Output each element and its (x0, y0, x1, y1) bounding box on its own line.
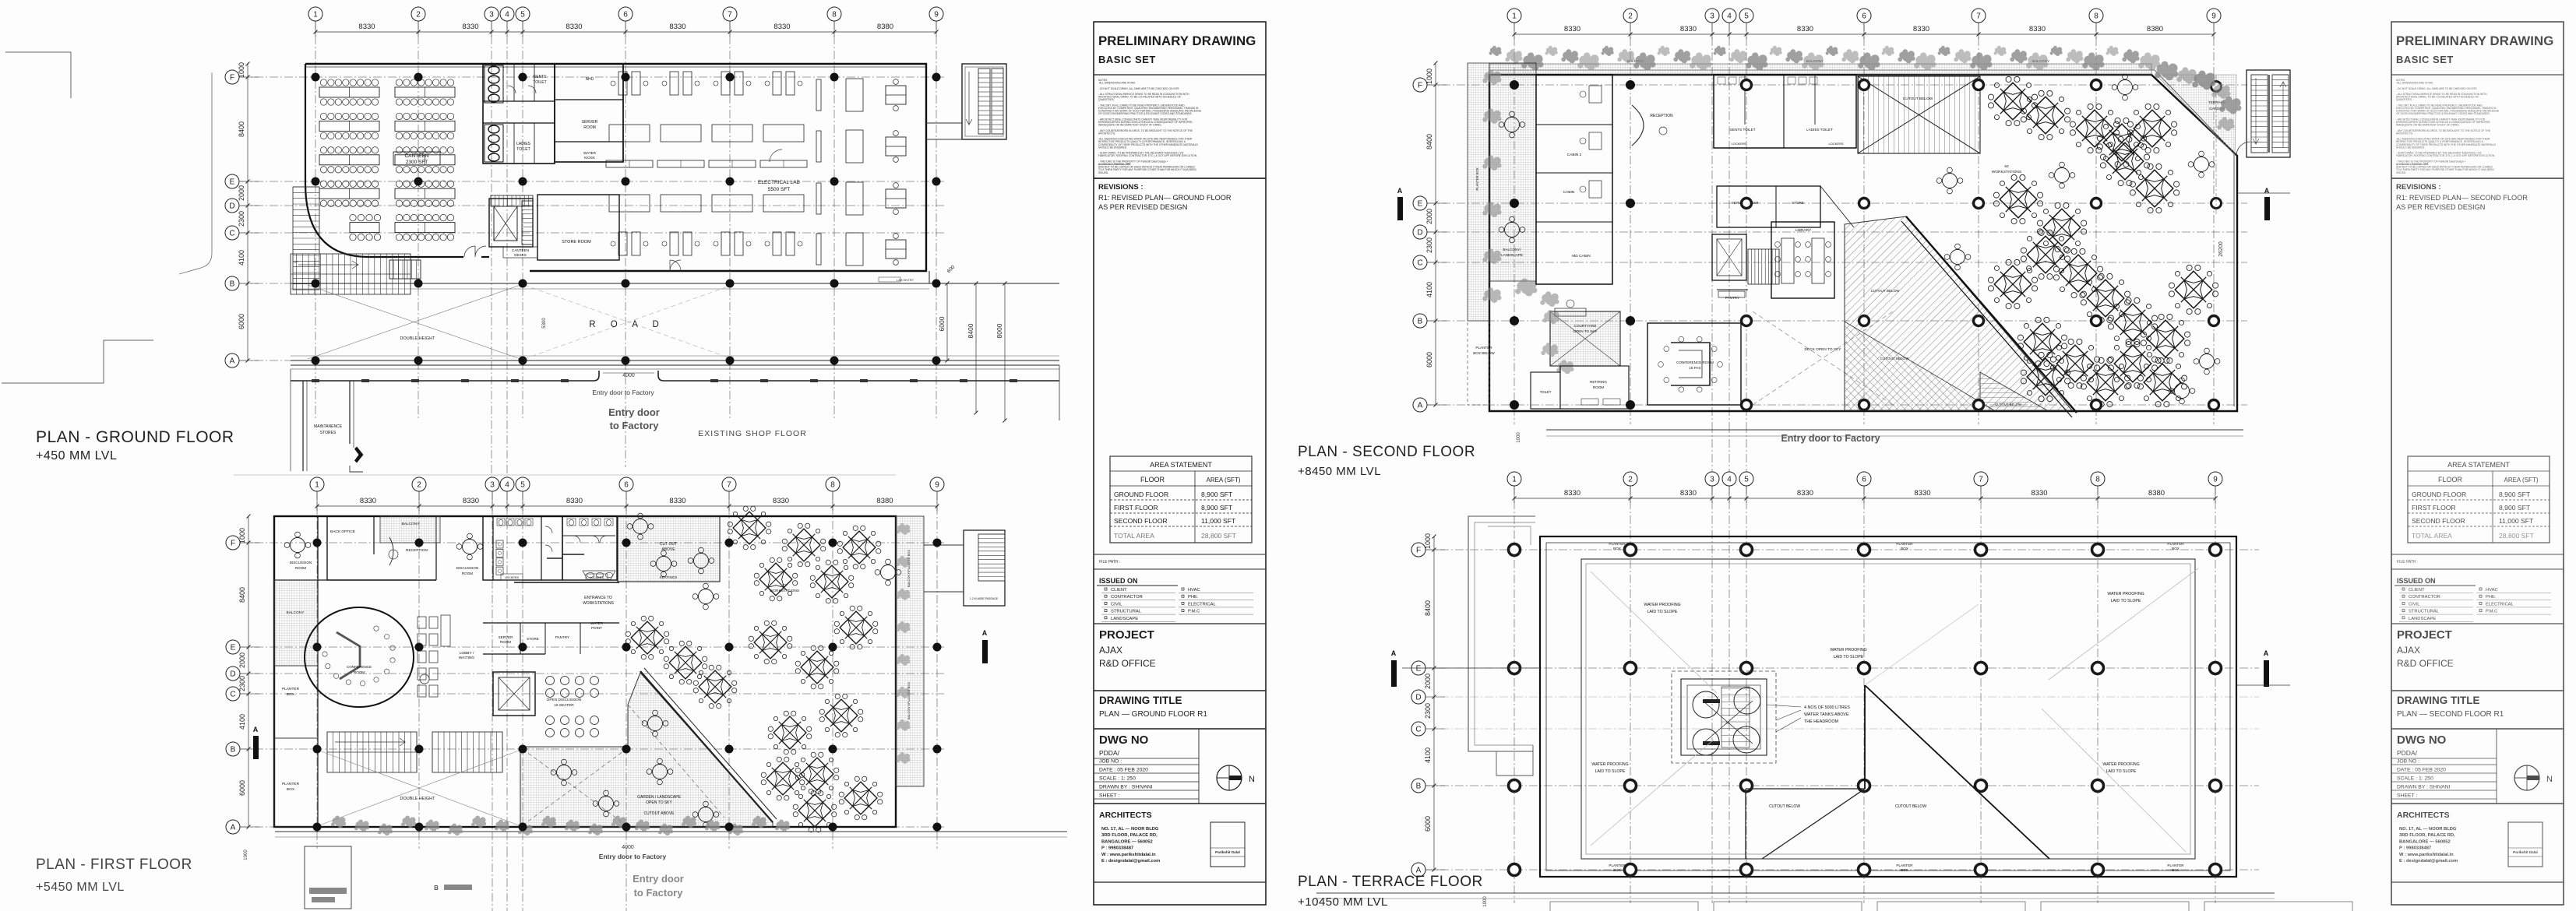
svg-text:SERVER: SERVER (582, 120, 598, 125)
svg-text:DWG NO: DWG NO (1099, 733, 1149, 747)
svg-text:28,800 SFT: 28,800 SFT (2499, 532, 2535, 540)
gents toilet block (483, 64, 555, 164)
title block frame (2391, 22, 2564, 905)
svg-text:F: F (1418, 82, 1422, 90)
terrace column donuts (1509, 544, 1521, 556)
svg-text:NO. 17, AL — NOOR BLDG: NO. 17, AL — NOOR BLDG (1101, 827, 1159, 832)
left dimension line (247, 64, 248, 361)
area statement table (2408, 456, 2550, 543)
svg-text:FILE PATH :: FILE PATH : (2397, 560, 2418, 565)
svg-text:BOX: BOX (287, 692, 295, 697)
svg-text:E : designdalal@gmail.com: E : designdalal@gmail.com (1101, 859, 1160, 864)
svg-text:3: 3 (489, 11, 494, 19)
svg-text:LOCKERS: LOCKERS (505, 576, 520, 579)
svg-text:1000: 1000 (238, 528, 246, 543)
left dimension line (1435, 63, 1436, 405)
svg-text:A: A (253, 726, 259, 733)
garden diag dashes (523, 749, 626, 825)
external stair top right (962, 64, 1006, 139)
svg-text:DECK OPEN TO SKY: DECK OPEN TO SKY (1804, 347, 1841, 352)
svg-text:5: 5 (520, 11, 525, 19)
svg-text:BOX: BOX (1901, 547, 1908, 550)
terrace parapet walls (1540, 536, 2236, 877)
svg-text:2000: 2000 (1424, 674, 1432, 689)
svg-text:W : www.parikshitdalal.in: W : www.parikshitdalal.in (1101, 853, 1156, 857)
svg-text:4: 4 (1727, 476, 1732, 484)
svg-text:8330: 8330 (462, 23, 478, 31)
hatched cutout triangles (1845, 216, 2072, 410)
workstation clusters first floor (728, 506, 771, 550)
file path bar (2391, 554, 2564, 555)
column bubbles (top) (1507, 472, 1521, 486)
svg-text:CUTOUT BELOW: CUTOUT BELOW (1903, 97, 1933, 101)
svg-text:4000: 4000 (622, 845, 634, 850)
toilet fixtures top row (497, 519, 505, 526)
svg-text:D: D (1417, 229, 1422, 237)
svg-text:8330: 8330 (463, 497, 479, 505)
lab entry door bottom (929, 271, 930, 283)
svg-text:AREA (SFT): AREA (SFT) (1206, 477, 1240, 484)
svg-text:WATER: WATER (590, 621, 604, 625)
svg-text:LANDSCAPE: LANDSCAPE (2409, 617, 2436, 621)
svg-text:DISCUSSION: DISCUSSION (456, 566, 479, 570)
svg-text:WATER PROOFING: WATER PROOFING (1830, 648, 1866, 652)
ground floor stair bottom-left (290, 254, 291, 294)
canteen desks label (503, 247, 537, 258)
svg-text:ISSUED ON: ISSUED ON (1099, 577, 1138, 585)
svg-text:PLAN — SECOND FLOOR R1: PLAN — SECOND FLOOR R1 (2397, 710, 2504, 719)
svg-text:WATER PROOFING: WATER PROOFING (2107, 592, 2144, 596)
svg-text:8380: 8380 (876, 497, 893, 505)
double height first floor (319, 751, 519, 825)
svg-text:8380: 8380 (877, 23, 893, 31)
svg-text:CONFERENCE ROOM: CONFERENCE ROOM (1676, 361, 1714, 364)
svg-text:FIRST FLOOR: FIRST FLOOR (2412, 504, 2456, 512)
svg-text:B: B (231, 746, 236, 754)
svg-text:CIVIL: CIVIL (2409, 602, 2420, 607)
svg-text:6000: 6000 (238, 314, 245, 329)
svg-text:R1: REVISED PLAN— SECOND FLOOR: R1: REVISED PLAN— SECOND FLOOR (2396, 194, 2528, 202)
svg-text:N: N (1249, 775, 1255, 784)
svg-text:PROJECT: PROJECT (2397, 628, 2452, 642)
svg-text:REVISIONS :: REVISIONS : (1098, 183, 1144, 192)
svg-text:SERVER: SERVER (499, 635, 513, 639)
svg-text:STRUCTURAL: STRUCTURAL (2409, 610, 2440, 614)
svg-text:LAID TO SLOPE: LAID TO SLOPE (1834, 655, 1864, 660)
svg-text:R&D OFFICE: R&D OFFICE (2397, 658, 2454, 669)
svg-text:PLANTER: PLANTER (282, 782, 300, 786)
svg-text:19 PAX: 19 PAX (1689, 366, 1700, 370)
svg-text:PHE.: PHE. (2486, 595, 2497, 600)
area statement table (1110, 456, 1252, 543)
svg-text:FILE PATH :: FILE PATH : (1099, 560, 1120, 565)
svg-text:PANTRY: PANTRY (1725, 296, 1739, 300)
svg-text:+8450 MM LVL: +8450 MM LVL (1298, 465, 1381, 478)
svg-text:LANDSCAPE: LANDSCAPE (1501, 253, 1523, 257)
svg-text:BOX: BOX (1901, 868, 1908, 872)
discussion room 2 table (456, 533, 483, 560)
svg-text:2300: 2300 (1425, 237, 1433, 253)
svg-text:PRELIMINARY DRAWING: PRELIMINARY DRAWING (1098, 33, 1256, 48)
plants at chamfer (2155, 62, 2178, 81)
svg-text:BOX BELOW: BOX BELOW (1473, 351, 1495, 355)
svg-text:PLANTER: PLANTER (2167, 864, 2184, 867)
svg-text:8330: 8330 (1797, 25, 1813, 33)
svg-text:9: 9 (2211, 12, 2216, 21)
svg-text:ELECTRICAL: ELECTRICAL (1188, 602, 1217, 607)
svg-text:P.M.C: P.M.C (2486, 610, 2497, 614)
library (1771, 222, 1834, 298)
north arrow (1217, 765, 1242, 790)
svg-text:7: 7 (1976, 12, 1981, 21)
svg-text:CONFERENCE: CONFERENCE (347, 665, 372, 669)
toilet stalls and doors (545, 526, 552, 533)
svg-text:8400: 8400 (1425, 134, 1433, 149)
svg-text:6000: 6000 (1425, 352, 1433, 368)
svg-text:HVAC: HVAC (2486, 588, 2498, 593)
electrical lab benches row1/row5 (618, 72, 627, 95)
svg-text:PHE.: PHE. (1188, 595, 1199, 600)
canteen label (393, 152, 440, 165)
svg-text:8,900 SFT: 8,900 SFT (2499, 504, 2531, 512)
svg-text:NO. 17, AL — NOOR BLDG: NO. 17, AL — NOOR BLDG (2399, 827, 2457, 832)
svg-text:AREA STATEMENT: AREA STATEMENT (2447, 461, 2510, 469)
svg-text:1000: 1000 (244, 849, 248, 860)
svg-text:ROOM: ROOM (462, 572, 473, 575)
svg-text:PLANTER: PLANTER (2167, 542, 2184, 546)
svg-text:8330: 8330 (1680, 25, 1697, 33)
svg-text:WORKSTATIONS: WORKSTATIONS (583, 601, 614, 606)
svg-text:DRAWING TITLE: DRAWING TITLE (1099, 695, 1182, 706)
svg-text:THE HEADROOM: THE HEADROOM (1804, 719, 1839, 724)
svg-text:A: A (1391, 649, 1397, 657)
svg-text:BASIC SET: BASIC SET (1098, 54, 1156, 65)
svg-text:PLAN - TERRACE FLOOR: PLAN - TERRACE FLOOR (1298, 874, 1483, 890)
svg-text:LOCKERS: LOCKERS (1731, 142, 1746, 146)
svg-text:CUTOUT BELOW: CUTOUT BELOW (1871, 289, 1901, 293)
svg-text:5: 5 (1744, 12, 1749, 21)
svg-text:QUANTITIES.: QUANTITIES. (2396, 98, 2412, 101)
svg-text:LAID TO SLOPE: LAID TO SLOPE (2111, 599, 2141, 603)
svg-text:PLAN - SECOND FLOOR: PLAN - SECOND FLOOR (1298, 444, 1475, 460)
svg-text:PLANTER: PLANTER (1896, 864, 1913, 867)
svg-text:RECEPTION: RECEPTION (406, 548, 428, 553)
svg-text:8400: 8400 (238, 121, 245, 137)
svg-text:DISCUSSION: DISCUSSION (290, 561, 312, 565)
svg-text:TO A THIRD PARTY FOR ANY PURPO: TO A THIRD PARTY FOR ANY PURPOSE OTHER T… (2396, 168, 2494, 171)
svg-text:E: E (1418, 200, 1423, 209)
svg-text:CABIN 2: CABIN 2 (1567, 153, 1582, 157)
svg-text:CUTOUT ABOVE: CUTOUT ABOVE (644, 811, 675, 816)
second floor outer walls (1489, 75, 2237, 411)
svg-text:+10450 MM LVL: +10450 MM LVL (1298, 895, 1388, 909)
conference room ellipse (305, 607, 414, 707)
svg-text:8: 8 (832, 11, 837, 19)
svg-text:ISSUED.: ISSUED. (1098, 171, 1108, 174)
svg-text:B: B (1418, 318, 1423, 326)
door arcs (670, 260, 681, 271)
svg-text:8330: 8330 (774, 23, 790, 31)
svg-text:COURTYARD: COURTYARD (1574, 324, 1597, 328)
svg-text:AHU: AHU (586, 77, 594, 82)
svg-text:KIOSK: KIOSK (584, 156, 596, 160)
sink ovals (583, 571, 615, 579)
svg-text:STRUCTURAL: STRUCTURAL (1111, 610, 1142, 614)
svg-text:WATER TANKS ABOVE: WATER TANKS ABOVE (1804, 712, 1849, 717)
svg-text:BALCONY/PLANTER BOX: BALCONY/PLANTER BOX (907, 550, 911, 588)
svg-text:2000: 2000 (238, 652, 246, 668)
svg-text:7: 7 (728, 11, 732, 19)
svg-text:- DO NOT SCALE DRWG. ALL DIMS: - DO NOT SCALE DRWG. ALL DIMS ARE TO BE … (1098, 87, 1179, 90)
svg-text:6: 6 (1862, 12, 1866, 21)
svg-text:F: F (1416, 547, 1421, 555)
svg-text:2: 2 (416, 11, 421, 19)
top dimension line (1514, 33, 2214, 35)
right title block (2391, 22, 2564, 905)
svg-text:REVISIONS :: REVISIONS : (2396, 183, 2441, 192)
svg-text:3: 3 (1710, 476, 1714, 484)
svg-text:PLAN - GROUND FLOOR: PLAN - GROUND FLOOR (36, 428, 234, 446)
svg-text:ARCHITECTS: ARCHITECTS (1099, 811, 1152, 820)
svg-text:DRAWING TITLE: DRAWING TITLE (2397, 695, 2480, 706)
svg-text:Entry door to Factory: Entry door to Factory (599, 853, 667, 860)
svg-text:RETIRING: RETIRING (1590, 380, 1607, 384)
svg-text:SHOULD BE ENSURED.: SHOULD BE ENSURED. (2396, 146, 2425, 149)
svg-text:A: A (2264, 187, 2270, 195)
svg-text:ENTRANCE TO: ENTRANCE TO (584, 596, 612, 600)
svg-text:PROJECT: PROJECT (1099, 628, 1154, 642)
svg-text:-ALL DIMENSIONS ARE IN MM.: -ALL DIMENSIONS ARE IN MM. (1098, 82, 1136, 85)
svg-text:Entry door: Entry door (633, 873, 684, 885)
svg-text:5: 5 (1744, 476, 1749, 484)
svg-text:SECOND FLOOR: SECOND FLOOR (1114, 517, 1168, 525)
svg-text:E: E (231, 644, 236, 652)
svg-text:PANTRY: PANTRY (555, 635, 569, 639)
svg-text:8330: 8330 (566, 23, 582, 31)
svg-text:CONTRACTOR: CONTRACTOR (1111, 595, 1143, 600)
top dimension line (315, 31, 936, 33)
svg-text:A: A (1397, 187, 1403, 195)
column bubbles (top) (1507, 9, 1521, 23)
svg-text:WATER PROOFING: WATER PROOFING (2102, 762, 2139, 767)
svg-text:SHOULD BE ENSURED.: SHOULD BE ENSURED. (1098, 146, 1127, 149)
svg-text:TOTAL AREA: TOTAL AREA (2412, 532, 2452, 540)
left planter strip second floor (1468, 63, 1489, 321)
svg-text:5500 SFT: 5500 SFT (768, 187, 791, 192)
stair along curved wall (293, 186, 319, 188)
svg-text:PRELIMINARY DRAWING: PRELIMINARY DRAWING (2396, 33, 2553, 48)
svg-text:8330: 8330 (1913, 25, 1929, 33)
svg-text:CUT OUT: CUT OUT (660, 542, 677, 547)
lockers (496, 540, 503, 548)
svg-text:WAITING: WAITING (459, 656, 475, 660)
svg-text:2000: 2000 (238, 185, 245, 201)
svg-text:TOILET: TOILET (533, 80, 546, 85)
svg-text:8330: 8330 (669, 23, 685, 31)
svg-text:RECEPTION: RECEPTION (1650, 114, 1673, 118)
svg-text:C: C (1415, 726, 1421, 734)
svg-text:DRAWN BY : SHIVANI: DRAWN BY : SHIVANI (1099, 785, 1153, 790)
grid dots ground floor (312, 73, 320, 82)
grid dots first floor (313, 539, 322, 547)
svg-text:8,900 SFT: 8,900 SFT (2499, 491, 2531, 498)
svg-text:BOX: BOX (287, 787, 295, 792)
svg-text:PLAN - FIRST FLOOR: PLAN - FIRST FLOOR (36, 856, 192, 873)
svg-text:GROUND FLOOR: GROUND FLOOR (2412, 491, 2466, 498)
svg-text:BALCONY/PLANTER BOX: BALCONY/PLANTER BOX (907, 682, 911, 720)
svg-text:8400: 8400 (238, 587, 246, 603)
left dimension line (1433, 536, 1435, 870)
svg-text:- DO NOT SCALE DRWG. ALL DIMS: - DO NOT SCALE DRWG. ALL DIMS ARE TO BE … (2396, 87, 2477, 90)
svg-text:AS PER REVISED DESIGN: AS PER REVISED DESIGN (2396, 203, 2485, 211)
svg-text:CUTOUT BELOW: CUTOUT BELOW (1895, 804, 1926, 809)
svg-text:SCALE : 1: 250: SCALE : 1: 250 (1099, 776, 1136, 782)
svg-text:1: 1 (315, 481, 319, 490)
svg-text:STORE: STORE (527, 637, 539, 641)
svg-text:SECOND FLOOR: SECOND FLOOR (2412, 517, 2465, 525)
svg-text:AREA STATEMENT: AREA STATEMENT (1150, 461, 1212, 469)
courtyard open to sky (1550, 311, 1620, 366)
svg-text:to Factory: to Factory (634, 887, 684, 899)
right side dimensions (946, 283, 948, 361)
svg-text:P : 9980338487: P : 9980338487 (1101, 846, 1133, 851)
terrace outline of floor below (left) (1468, 516, 1535, 751)
svg-text:8330: 8330 (1680, 489, 1697, 498)
svg-text:4100: 4100 (1425, 282, 1433, 297)
svg-text:ROOM: ROOM (500, 640, 511, 644)
svg-text:4100: 4100 (238, 250, 245, 266)
svg-text:6: 6 (623, 11, 628, 19)
svg-text:11,000 SFT: 11,000 SFT (2499, 517, 2534, 525)
svg-text:ROOM: ROOM (1593, 385, 1604, 389)
svg-text:JOB NO :: JOB NO : (2397, 759, 2419, 765)
svg-text:HVAC: HVAC (1188, 588, 1200, 593)
architect logo box (2508, 822, 2543, 867)
passage and stair right (964, 530, 1005, 606)
svg-text:CANTEEN: CANTEEN (404, 153, 428, 159)
cabin block (1536, 75, 1612, 284)
svg-text:PDDA/: PDDA/ (2397, 749, 2418, 757)
svg-text:R1: REVISED PLAN— GROUND FLOOR: R1: REVISED PLAN— GROUND FLOOR (1098, 194, 1232, 202)
svg-text:26200: 26200 (2218, 241, 2224, 257)
svg-text:4: 4 (1727, 12, 1732, 21)
toilets second floor (1714, 75, 1856, 148)
svg-text:AREA (SFT): AREA (SFT) (2504, 477, 2538, 484)
ground floor outer walls (305, 64, 926, 271)
first floor toilets (483, 516, 617, 580)
svg-text:72: 72 (782, 583, 787, 588)
svg-text:6000: 6000 (938, 316, 946, 331)
svg-text:8,900 SFT: 8,900 SFT (1201, 491, 1233, 498)
electrical lab right equipment (816, 79, 821, 111)
svg-text:6: 6 (1862, 476, 1866, 484)
svg-text:SEATINGS: SEATINGS (660, 575, 678, 579)
svg-text:GENTS: GENTS (533, 75, 547, 79)
svg-text:ISSUED.: ISSUED. (2396, 171, 2406, 174)
svg-text:8330: 8330 (360, 497, 376, 505)
water tank annotation (1767, 705, 1801, 732)
svg-text:9: 9 (2213, 476, 2218, 484)
svg-text:8330: 8330 (2031, 489, 2047, 498)
svg-text:8330: 8330 (1914, 489, 1930, 498)
file path bar (1094, 554, 1266, 555)
svg-text:LADIES TOILET: LADIES TOILET (1806, 128, 1833, 132)
svg-text:WORKSTATIONS: WORKSTATIONS (1992, 170, 2021, 174)
svg-text:FIRST FLOOR: FIRST FLOOR (1114, 504, 1158, 512)
svg-text:DRAWN BY : SHIVANI: DRAWN BY : SHIVANI (2397, 785, 2451, 790)
svg-text:SHEET :: SHEET : (1099, 793, 1119, 799)
svg-text:STORES: STORES (320, 431, 337, 435)
svg-text:LADIES: LADIES (516, 142, 530, 146)
svg-text:CONTRACTOR: CONTRACTOR (2409, 595, 2440, 600)
svg-text:C: C (230, 691, 235, 699)
svg-text:8: 8 (830, 481, 835, 490)
balcony landscape region (1489, 63, 1536, 281)
svg-text:BOX: BOX (1613, 547, 1621, 550)
svg-text:A: A (982, 629, 988, 637)
terrace column grid (1514, 486, 1515, 903)
lobby furniture (418, 617, 426, 628)
architect logo box (1210, 822, 1245, 867)
svg-text:1: 1 (1512, 12, 1517, 21)
svg-text:E : designdalal@gmail.com: E : designdalal@gmail.com (2399, 859, 2458, 864)
svg-text:3: 3 (1710, 12, 1714, 21)
svg-text:CUTOUT BELOW: CUTOUT BELOW (1880, 357, 1910, 361)
svg-text:ROOM: ROOM (583, 125, 596, 130)
second floor column grid (1514, 23, 1515, 424)
svg-text:B: B (434, 885, 439, 892)
first floor outer walls (274, 516, 896, 827)
svg-text:8: 8 (2094, 12, 2099, 21)
svg-text:LAID TO SLOPE: LAID TO SLOPE (2106, 769, 2137, 774)
svg-text:PLANTER BOX: PLANTER BOX (1475, 167, 1479, 191)
svg-text:TO A THIRD PARTY FOR ANY PURPO: TO A THIRD PARTY FOR ANY PURPOSE OTHER T… (1098, 168, 1196, 171)
svg-text:28,800 SFT: 28,800 SFT (1201, 532, 1237, 540)
plants along bottom garden (331, 815, 346, 828)
svg-text:Entry door: Entry door (608, 406, 660, 418)
svg-text:5: 5 (520, 481, 525, 490)
svg-text:1: 1 (313, 11, 318, 19)
svg-text:DWG NO: DWG NO (2397, 733, 2447, 747)
svg-text:FLOOR: FLOOR (2438, 476, 2463, 484)
svg-text:WATER: WATER (583, 151, 597, 155)
svg-text:B: B (230, 280, 235, 289)
svg-text:8330: 8330 (566, 497, 583, 505)
svg-text:WATER PROOFING: WATER PROOFING (1591, 762, 1628, 767)
ahu / server / kiosk rooms (555, 64, 623, 162)
svg-text:D: D (230, 670, 235, 679)
canopy below stair (290, 369, 291, 471)
svg-text:9: 9 (934, 11, 939, 19)
row bubbles (left) (225, 70, 239, 84)
svg-text:F: F (231, 540, 235, 548)
svg-text:4: 4 (505, 481, 509, 490)
svg-text:FLOOR: FLOOR (1140, 476, 1165, 484)
svg-text:E: E (1416, 665, 1422, 674)
stair top right second floor (2247, 70, 2290, 157)
store room (537, 195, 619, 260)
svg-text:OPEN TO SKY: OPEN TO SKY (1573, 329, 1598, 333)
svg-text:ARCHITECTS: ARCHITECTS (2397, 811, 2450, 820)
svg-text:4 NOS OF 5000 LITRES: 4 NOS OF 5000 LITRES (1804, 705, 1850, 710)
svg-text:SCALE : 1: 250: SCALE : 1: 250 (2397, 776, 2433, 782)
svg-text:BACK OFFICE: BACK OFFICE (330, 529, 355, 534)
svg-text:9: 9 (935, 481, 939, 490)
svg-text:N: N (2546, 775, 2553, 784)
svg-text:STORE ROOM: STORE ROOM (562, 240, 591, 244)
svg-text:INADEQUATE OR INCOMPETENT STUD: INADEQUATE OR INCOMPETENT STUDY OF DRWG. (2396, 124, 2460, 127)
svg-text:C: C (229, 230, 234, 238)
